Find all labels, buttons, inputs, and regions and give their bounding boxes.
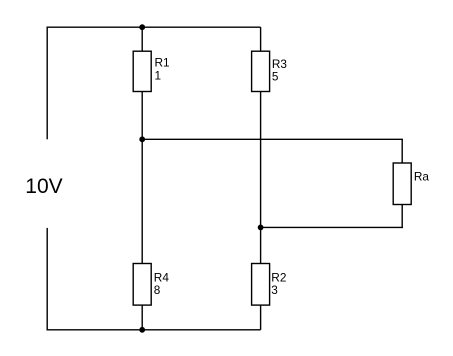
wire left rail lower segment (46, 228, 48, 331)
resistor R3 body (252, 51, 270, 91)
wire Ra branch: middle wire down to Ra (401, 139, 403, 163)
wire left branch: R1 to middle node (141, 92, 143, 140)
wire middle horizontal: node A to Ra branch (142, 138, 403, 140)
wire left branch: top node to R1 (141, 27, 143, 51)
wire left branch: middle node to R4 (141, 139, 143, 263)
resistor R2 body (252, 264, 270, 306)
svg-text:3: 3 (271, 283, 278, 297)
wire top horizontal rail (47, 26, 261, 28)
wire left rail upper segment (46, 27, 48, 140)
wire Ra branch: Ra down to bottom return (401, 205, 403, 229)
wire bottom horizontal rail (47, 329, 261, 331)
node dot: right branch / Ra return junction (258, 225, 264, 231)
wire Ra bottom return to node B (261, 226, 403, 228)
svg-text:5: 5 (272, 70, 279, 84)
wire right branch: top rail to R3 (260, 27, 262, 51)
wire right branch: node B to R2 (260, 227, 262, 263)
resistor R4 body (133, 264, 151, 306)
wire right branch: R2 to bottom rail (260, 305, 262, 330)
node dot: bottom rail / left branch junction (139, 327, 145, 333)
resistor Ra body (393, 163, 411, 205)
svg-text:8: 8 (154, 283, 161, 297)
svg-text:R1: R1 (155, 56, 170, 70)
svg-text:Ra: Ra (414, 169, 430, 183)
node dot: top rail / left branch junction (139, 24, 145, 30)
svg-text:10V: 10V (25, 175, 62, 198)
node dot: middle wire / left branch junction (139, 136, 145, 142)
resistor R1 body (133, 51, 151, 91)
svg-text:1: 1 (155, 69, 162, 83)
wire right branch: R3 down through crossing to node B (260, 92, 262, 228)
wire left branch: R4 to bottom node (141, 305, 143, 330)
